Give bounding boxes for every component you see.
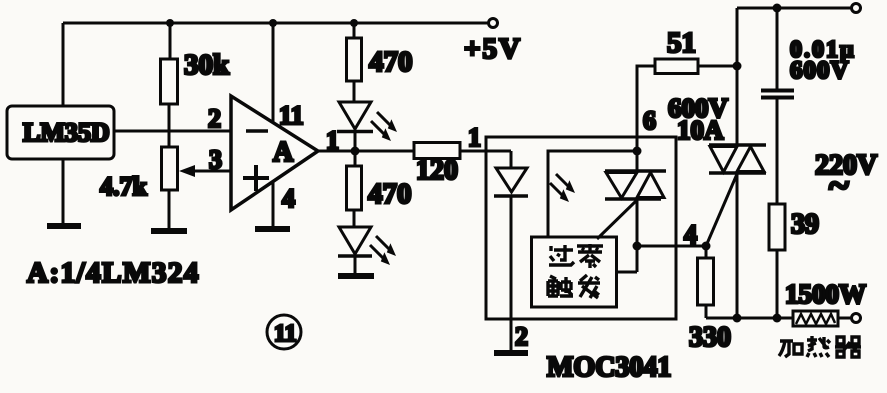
node pin4 / 330 / gate	[702, 242, 711, 251]
LED inside MOC pin1-pin2	[494, 151, 528, 353]
LED D2	[338, 227, 372, 275]
node top rail / 470	[350, 19, 358, 27]
ground 4.7k	[151, 228, 187, 234]
wire +5V top rail	[63, 22, 491, 25]
pin 11 wire	[273, 23, 304, 130]
MOC triac gate diagonal	[597, 201, 636, 239]
node top rail / 30k	[166, 19, 174, 27]
node 39 bottom	[773, 314, 782, 323]
terminal 220V top	[852, 4, 861, 13]
resistor 470 top	[347, 23, 413, 102]
trigger text char guo	[549, 245, 574, 265]
trigger text char chu	[548, 276, 573, 296]
svg-text:600V: 600V	[790, 57, 850, 84]
figure number 11 circled	[267, 315, 301, 349]
heater element 1500W	[785, 279, 866, 326]
node output / LED chain	[351, 147, 360, 156]
pin 3 label	[209, 145, 222, 174]
ground LED D2	[338, 273, 374, 279]
resistor 51	[637, 27, 737, 137]
svg-text:4: 4	[282, 184, 295, 213]
svg-text:MOC3041: MOC3041	[547, 352, 671, 383]
label 220V	[815, 150, 877, 207]
ground op-amp pin4	[255, 226, 290, 232]
ground LM35D	[47, 223, 81, 229]
terminal 220V bottom	[852, 314, 861, 323]
heater text char qi	[835, 337, 861, 357]
op-amp minus input	[246, 129, 268, 133]
pin 6 label	[643, 106, 656, 135]
label MOC3041	[547, 352, 671, 383]
resistor 30k	[161, 23, 231, 147]
node MOC pin6	[633, 147, 642, 156]
pin 2 label	[208, 104, 221, 133]
svg-text:120: 120	[416, 155, 458, 186]
capacitor 0.01u 600V	[761, 8, 856, 204]
optocoupler MOC3041 box	[486, 137, 676, 319]
node 51 / main line	[733, 62, 742, 71]
pin 4 wire	[273, 181, 295, 229]
op-amp U1 A	[231, 96, 318, 210]
node capacitor top	[773, 4, 782, 13]
wire trigger box to pin4 node	[615, 271, 637, 274]
svg-text:+5V: +5V	[464, 33, 522, 65]
wire LM35D ground lead	[62, 159, 65, 226]
sensor LM35D	[7, 106, 114, 159]
wire main triac top	[736, 8, 739, 145]
svg-text:1500W: 1500W	[785, 279, 866, 309]
MOC internal light arrows	[550, 174, 575, 202]
op-amp plus input	[243, 165, 269, 191]
photo-triac in MOC	[605, 137, 666, 272]
terminal +5V	[464, 19, 522, 66]
svg-text:~: ~	[829, 165, 849, 207]
resistor 470 bottom	[347, 151, 412, 227]
svg-text:11: 11	[279, 101, 304, 130]
LED D1 light arrows	[371, 112, 397, 141]
svg-text:10A: 10A	[677, 115, 724, 145]
wire top right rail	[737, 7, 853, 10]
wire bottom rail	[706, 317, 793, 320]
zero-cross trigger box	[532, 237, 617, 307]
LED D2 light arrows	[370, 236, 396, 265]
svg-text:2: 2	[208, 104, 221, 133]
svg-text:A:1/4LM324: A:1/4LM324	[27, 257, 200, 289]
wire 120 to MOC pin1	[460, 123, 511, 152]
svg-text:3: 3	[209, 145, 222, 174]
svg-text:470: 470	[369, 46, 413, 78]
svg-text:51: 51	[667, 27, 696, 59]
ground MOC pin2	[494, 350, 528, 356]
heater text char jia	[779, 341, 802, 357]
node MOC pin4	[633, 242, 642, 251]
svg-text:330: 330	[689, 322, 731, 353]
resistor 39	[769, 204, 819, 318]
svg-text:4.7k: 4.7k	[100, 172, 148, 201]
resistor 120	[414, 143, 460, 187]
wire LM35D output to pin 2	[114, 130, 231, 133]
triac gate wire	[706, 174, 737, 246]
node top rail / pin11	[269, 19, 277, 27]
svg-text:6: 6	[643, 106, 656, 135]
svg-text:LM35D: LM35D	[23, 118, 110, 147]
wire LM35D supply	[62, 23, 65, 106]
resistor 330	[689, 246, 731, 353]
pin 2 label	[515, 322, 528, 351]
trigger text char ling	[577, 244, 603, 268]
label 600V 10A	[668, 93, 729, 145]
svg-text:1: 1	[468, 123, 481, 152]
svg-text:39: 39	[791, 209, 819, 240]
svg-text:2: 2	[515, 322, 528, 351]
node triac bottom	[733, 314, 742, 323]
wire pin4 out	[637, 220, 706, 249]
svg-text:11: 11	[274, 321, 297, 347]
wire op-amp output	[318, 126, 414, 155]
svg-text:A: A	[273, 137, 294, 168]
wiper arrow 4.7k	[179, 165, 231, 177]
triac 600V 10A	[709, 145, 766, 318]
LED D1	[337, 102, 373, 151]
wire MOC pin6 node to trigger box	[548, 151, 637, 238]
potentiometer 4.7k	[100, 147, 178, 231]
svg-text:470: 470	[368, 178, 412, 210]
trigger text char fa	[578, 275, 600, 298]
label A:1/4LM324	[27, 257, 200, 289]
svg-text:30k: 30k	[184, 49, 230, 81]
svg-text:4: 4	[684, 220, 697, 249]
heater text char re	[807, 336, 830, 357]
